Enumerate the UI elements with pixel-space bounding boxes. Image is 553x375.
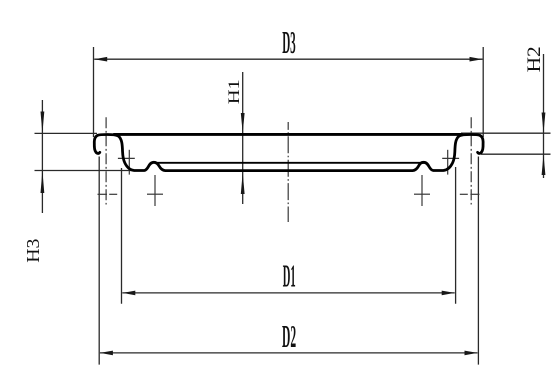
svg-text:H1: H1 xyxy=(225,79,242,104)
svg-text:D3: D3 xyxy=(282,26,296,61)
svg-text:H2: H2 xyxy=(524,46,545,72)
svg-text:D2: D2 xyxy=(282,320,296,355)
svg-text:H3: H3 xyxy=(24,239,44,263)
svg-text:D1: D1 xyxy=(283,260,296,295)
